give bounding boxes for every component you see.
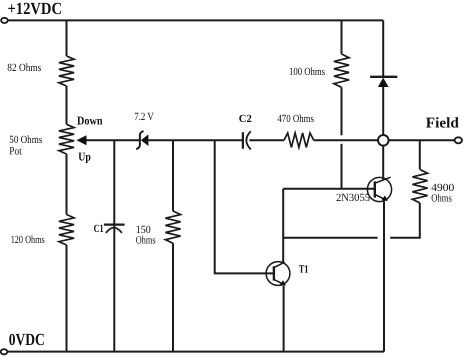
- terminal 0VDC: [1, 349, 8, 354]
- wire left rail between pot and R120: [66, 154, 68, 215]
- svg-text:7.2 V: 7.2 V: [134, 111, 154, 123]
- wire 150 to bottom rail: [172, 243, 174, 351]
- resistor 150 Ohms: [165, 211, 180, 243]
- wire R470 to node: [314, 139, 379, 141]
- wire T1 collector to 2N3055 base (vertical at x=283): [282, 189, 284, 263]
- wire 4900 branch from field row: [419, 140, 421, 169]
- wire top rail +12V: [8, 19, 384, 21]
- wire left rail lower: [66, 245, 68, 352]
- svg-text:82 Ohms: 82 Ohms: [7, 62, 41, 74]
- wire wiper row: arrow to zener: [87, 139, 140, 141]
- svg-text:T1: T1: [299, 264, 309, 276]
- resistor 120 Ohms: [59, 215, 74, 246]
- diode D1: [382, 20, 384, 76]
- transistor T1: [266, 262, 290, 286]
- wire 4900 bottom to T1 collector node (hops emitter line): [390, 203, 420, 238]
- node C1 branch junction / wire down: [113, 140, 115, 351]
- svg-text:50 Ohms: 50 Ohms: [9, 134, 42, 146]
- svg-text:C2: C2: [239, 113, 252, 125]
- terminal Field: [455, 137, 462, 143]
- capacitor C2: [242, 132, 244, 149]
- capacitor C1: [104, 224, 125, 226]
- svg-text:Down: Down: [77, 114, 103, 128]
- svg-text:120 Ohms: 120 Ohms: [11, 234, 45, 246]
- wire left rail between R82 and pot: [66, 86, 68, 124]
- wire node to field terminal: [389, 139, 455, 141]
- svg-text:Up: Up: [78, 150, 91, 164]
- resistor 470 Ohms: [284, 133, 314, 147]
- svg-text:+12VDC: +12VDC: [8, 0, 63, 18]
- pot wiper arrow: [77, 135, 87, 145]
- wire zener to C2: [148, 139, 242, 141]
- node T1 base branch junction / wire down to T1: [215, 140, 273, 273]
- svg-text:C1: C1: [94, 223, 104, 235]
- svg-text:Ohms: Ohms: [136, 234, 156, 246]
- resistor 82 Ohms: [59, 56, 74, 86]
- wire R100 down (hops wiper row): [341, 87, 343, 135]
- svg-text:100 Ohms: 100 Ohms: [289, 66, 325, 78]
- wire 2N3055 base wire: [283, 188, 374, 190]
- svg-text:470 Ohms: 470 Ohms: [277, 113, 314, 125]
- svg-text:Ohms: Ohms: [431, 192, 452, 204]
- svg-text:Field: Field: [426, 116, 460, 132]
- wire C2 to R470: [249, 139, 284, 141]
- node 150 branch junction / wire down: [172, 140, 174, 211]
- resistor 4900 Ohms: [412, 170, 427, 204]
- svg-text:Pot: Pot: [9, 146, 21, 158]
- node junction circle (field node): [378, 135, 389, 146]
- svg-text:0VDC: 0VDC: [9, 330, 45, 349]
- potentiometer 50 Ohms Pot: [59, 124, 74, 154]
- transistor 2N3055: [367, 177, 391, 201]
- wire bottom rail 0VDC: [7, 351, 384, 353]
- terminal +12VDC: [1, 18, 8, 23]
- wire left rail upper: [66, 20, 68, 56]
- resistor 100 Ohms branch: [341, 20, 343, 54]
- zener diode 7.2 V: [136, 131, 143, 149]
- svg-text:2N3055: 2N3055: [336, 192, 370, 204]
